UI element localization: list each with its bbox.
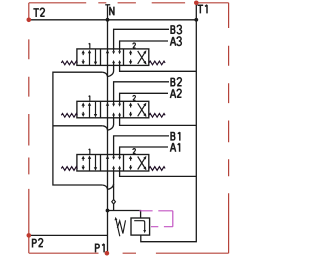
V1 left centering spring	[61, 61, 77, 65]
port label B2	[171, 78, 182, 87]
V1 position-1 arrows	[82, 53, 84, 62]
node A2 line	[120, 93, 168, 101]
port label B3	[171, 25, 181, 34]
check valve CV1	[112, 200, 116, 204]
V3 position dividers	[101, 155, 124, 172]
check valve CV1 line	[113, 171, 115, 211]
valve section V2 body	[77, 101, 149, 118]
valve section V1 body	[77, 49, 149, 66]
V1 position label 1	[89, 43, 90, 48]
wire V2 gallery funnel	[102, 118, 113, 130]
V3 left centering spring	[61, 167, 77, 171]
V3 position-1 arrows	[82, 159, 84, 168]
port T2 dot	[27, 18, 32, 23]
V1 position label 2	[133, 43, 136, 48]
node T1 junction	[194, 18, 198, 22]
V2 neutral open-centre arrow	[106, 102, 109, 106]
V1 position-2 arrows	[130, 53, 132, 62]
port label A2	[170, 89, 181, 98]
port T1 dot	[194, 1, 199, 6]
relief valve RV1 body	[131, 218, 150, 235]
wire V1 gallery funnel	[102, 65, 113, 76]
V2 position-2 arrows	[130, 105, 132, 114]
port label P2	[33, 239, 43, 248]
valve section V3 body	[77, 155, 149, 172]
V3 neutral open-centre arrow	[106, 155, 109, 159]
V2 right centering spring	[149, 113, 165, 117]
node A3 line	[120, 41, 168, 49]
wire left parallel feed rail	[53, 72, 102, 185]
V2 neutral blocked ports	[113, 101, 115, 118]
node B3 line	[114, 29, 169, 49]
wire pump to relief valve	[108, 211, 141, 219]
V3 position label 1	[89, 149, 90, 154]
node B1 line	[114, 136, 169, 155]
V3 neutral blocked ports	[113, 155, 115, 172]
V2 position label 1	[89, 96, 90, 101]
V1 neutral blocked ports	[113, 49, 115, 66]
port label A1	[170, 143, 179, 152]
V2 position dividers	[101, 101, 124, 118]
wire V3 tank return	[120, 171, 197, 176]
wire P2 inlet line	[29, 234, 108, 236]
V1 position dividers	[101, 49, 124, 66]
enclosure dashed boundary	[29, 3, 229, 254]
wire T1 right rail to relief outlet	[141, 3, 197, 242]
V3 position-2 arrows	[130, 159, 132, 168]
V3 position label 2	[133, 149, 136, 154]
V2 position-1 arrows	[82, 105, 84, 114]
wire T2-T1 tank line	[29, 19, 197, 21]
port label N	[110, 7, 114, 16]
port label A3	[170, 37, 181, 46]
V2 position label 2	[133, 95, 136, 100]
port label T1	[198, 5, 207, 13]
V1 neutral open-centre arrow	[106, 50, 109, 54]
port label P1	[96, 244, 105, 253]
wire V1 tank return	[120, 65, 197, 71]
node N plug tick	[105, 4, 110, 6]
node A1 line	[120, 147, 168, 155]
V2 left centering spring	[61, 113, 77, 117]
port label B1	[171, 132, 180, 141]
node P junction	[106, 209, 110, 213]
port label T2	[33, 8, 44, 17]
port P1 dot	[105, 251, 110, 256]
V1 right centering spring	[149, 61, 165, 65]
wire V3 gallery funnel	[102, 184, 113, 189]
wire N open-centre pump line	[107, 5, 109, 253]
node B2 line	[114, 82, 169, 102]
relief pilot dashed line	[139, 211, 173, 227]
relief valve RV1 flow arrow	[134, 221, 145, 231]
wire V2 tank return	[120, 118, 197, 126]
V3 right centering spring	[149, 167, 165, 171]
relief valve RV1 adjustable spring	[117, 220, 125, 233]
node N junction	[106, 18, 110, 22]
port P2 dot	[27, 233, 32, 238]
